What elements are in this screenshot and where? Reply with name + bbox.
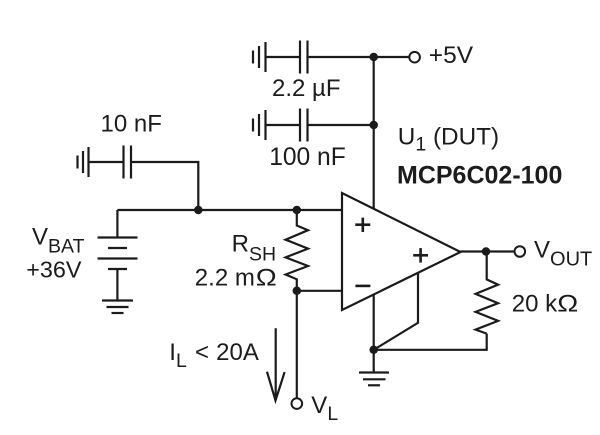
wire op-amp REF pin [374, 273, 418, 350]
ground (sideways, at C3 10nF) [78, 147, 89, 177]
svg-text:100 nF: 100 nF [269, 144, 346, 171]
ground (battery) [102, 301, 133, 314]
wire RSH bottom to op-amp -IN [297, 290, 342, 292]
node 10nF junction [194, 206, 203, 215]
wire ground node down [373, 350, 375, 372]
op-amp +REF symbol [413, 248, 428, 263]
terminal +5V [409, 52, 420, 63]
svg-text:RSH: RSH [232, 231, 276, 266]
wire RSH bottom down to VL terminal [296, 291, 298, 398]
resistor RSH 2.2mOhm [286, 210, 308, 291]
capacitor C2 100nF [300, 109, 308, 142]
node VOUT junction [482, 247, 491, 256]
svg-text:VOUT: VOUT [534, 237, 592, 271]
wire C1 to +5V node [309, 56, 374, 58]
wire C2 to supply rail [309, 124, 374, 126]
node RSH top junction [293, 206, 302, 215]
op-amp U1 triangle [342, 193, 461, 310]
node 100nF junction [369, 121, 378, 130]
svg-text:10 nF: 10 nF [101, 111, 162, 138]
wire C3 ground to C3 [89, 161, 123, 163]
svg-text:MCP6C02-100: MCP6C02-100 [397, 162, 562, 190]
wire input rail (battery to op-amp +IN) [117, 209, 342, 211]
wire C3 to input rail [132, 162, 198, 210]
node ground junction [369, 346, 378, 355]
svg-text:IL < 20A: IL < 20A [169, 339, 259, 372]
svg-text:+36V: +36V [26, 257, 82, 283]
wire ground node to 20k bottom [374, 334, 487, 350]
svg-text:VBAT: VBAT [32, 224, 85, 258]
ground (op-amp) [359, 373, 389, 386]
wire battery top [116, 210, 118, 238]
resistor R2 20kOhm [476, 252, 499, 334]
wire op-amp VSS pin to ground node [373, 295, 375, 350]
svg-text:Ω: Ω [557, 289, 578, 317]
svg-text:+5V: +5V [429, 42, 474, 69]
op-amp +IN symbol [355, 218, 370, 232]
op-amp -IN symbol [355, 285, 370, 288]
capacitor C3 10nF [124, 146, 132, 179]
capacitor C1 2.2uF [300, 41, 308, 74]
node +5V junction [369, 53, 378, 62]
wire +5V rail down to op-amp supply pin [373, 57, 375, 208]
ground (sideways, at C1 2.2uF) [253, 42, 266, 72]
wire battery bottom [116, 269, 118, 300]
wire node to +5V terminal [374, 56, 410, 58]
svg-text:2.2 m: 2.2 m [195, 265, 255, 292]
svg-text:2.2 µF: 2.2 µF [272, 75, 341, 102]
arrow IL load current [267, 328, 285, 400]
terminal VL [292, 398, 303, 409]
wire C2 ground to C2 [266, 124, 300, 126]
battery VBAT [98, 238, 138, 270]
svg-text:VL: VL [311, 392, 338, 425]
svg-text:U1 (DUT): U1 (DUT) [398, 124, 499, 156]
wire C1 ground to C1 [266, 56, 300, 58]
wire op-amp output [461, 250, 515, 252]
node RSH bottom junction [293, 287, 302, 296]
terminal VOUT [515, 246, 526, 257]
svg-text:Ω: Ω [256, 263, 277, 291]
ground (sideways, at C2 100nF) [253, 110, 266, 140]
svg-text:20 k: 20 k [512, 291, 558, 318]
